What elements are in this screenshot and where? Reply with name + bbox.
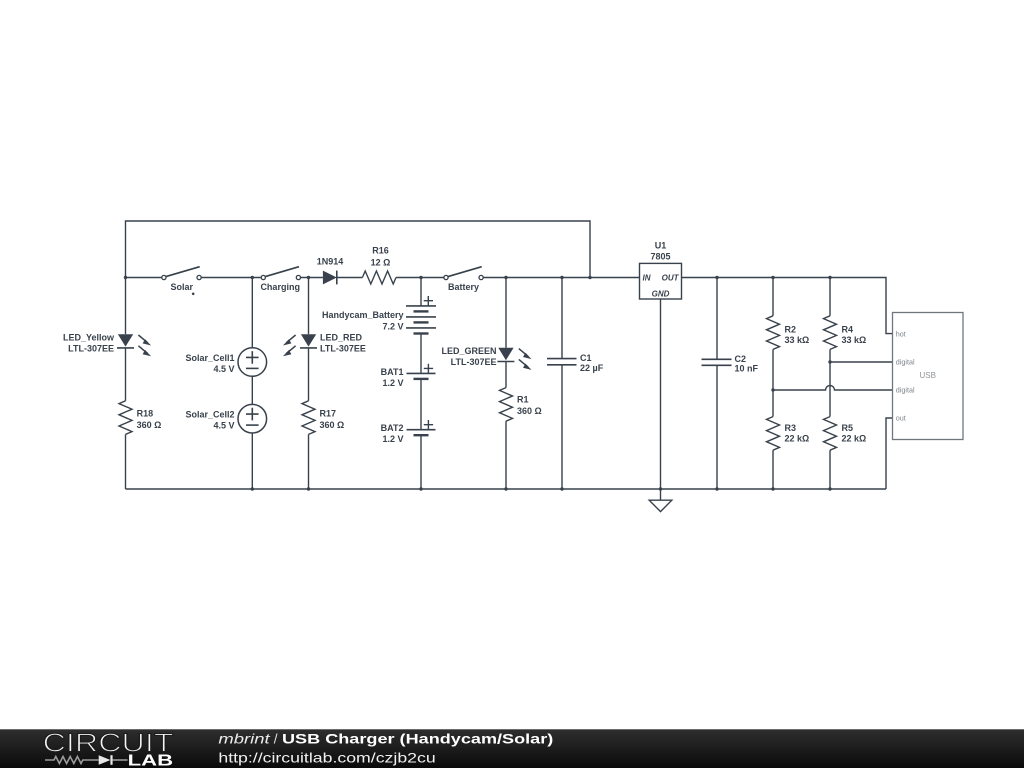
svg-text:7805: 7805	[650, 251, 670, 261]
svg-text:R4: R4	[842, 325, 854, 335]
switch Battery	[444, 267, 483, 280]
battery BAT1	[407, 364, 436, 379]
resistor R5	[824, 417, 837, 451]
svg-text:1.2 V: 1.2 V	[382, 378, 403, 388]
svg-text:USB: USB	[919, 371, 935, 380]
wire main bus Charging switch to diode D1	[301, 277, 323, 279]
wire main bus Battery switch to U1 IN	[483, 277, 639, 279]
svg-text:digital: digital	[896, 357, 915, 366]
wire R2 column top	[772, 278, 774, 316]
wire main bus Solar switch to Charging switch	[201, 277, 261, 279]
junction node C2 column / main bus	[715, 276, 718, 279]
resistor R1	[500, 388, 513, 422]
voltage source Solar_Cell2	[238, 404, 267, 433]
wire left rail LED to R18	[125, 348, 127, 401]
svg-text:R17: R17	[320, 409, 337, 419]
svg-text:BAT1: BAT1	[381, 367, 404, 377]
svg-text:LAB: LAB	[128, 753, 173, 768]
capacitor C1	[547, 359, 577, 365]
svg-text:out: out	[896, 414, 906, 423]
wire R17 to bottom bus	[308, 434, 310, 489]
svg-text:R3: R3	[785, 423, 797, 433]
LED LED_Yellow	[117, 334, 151, 356]
ground	[649, 489, 672, 512]
svg-text:digital: digital	[896, 386, 915, 395]
resistor R17	[302, 401, 315, 435]
wire R2 to R3	[772, 349, 774, 416]
junction node R4/R5 digital1	[828, 360, 831, 363]
wire top loop from left rail to U1 input column	[126, 221, 591, 278]
svg-text:BAT2: BAT2	[381, 423, 404, 433]
battery Handycam_Battery	[406, 296, 436, 334]
wire left rail upper	[125, 278, 127, 335]
svg-text:Solar_Cell1: Solar_Cell1	[185, 353, 234, 363]
junction node LED_GREEN column / main bus	[504, 276, 507, 279]
svg-text:LTL-307EE: LTL-307EE	[320, 344, 366, 354]
junction node C1 column / main bus	[560, 276, 563, 279]
svg-text:7.2 V: 7.2 V	[382, 321, 403, 331]
svg-text:U1: U1	[655, 240, 667, 250]
wire between solar cells	[251, 376, 253, 404]
connector USB box	[893, 313, 964, 440]
wire LED_RED to R17	[308, 348, 310, 401]
resistor R4	[824, 316, 837, 350]
junction node LED_RED column / main bus	[307, 276, 310, 279]
wire LED_GREEN to R1	[505, 362, 507, 388]
wire battery column top	[420, 278, 422, 307]
junction node C2 column / bottom bus	[715, 487, 718, 490]
junction node BAT2 column / bottom bus	[419, 487, 422, 490]
switch Charging	[261, 267, 300, 280]
resistor R18	[119, 401, 132, 435]
svg-text:360 Ω: 360 Ω	[137, 420, 162, 430]
svg-text:USB Charger (Handycam/Solar): USB Charger (Handycam/Solar)	[282, 732, 553, 747]
junction node R4 column / main bus	[828, 276, 831, 279]
CircuitLab logo resistor-diode glyph	[45, 757, 128, 764]
junction node left rail / main bus	[124, 276, 127, 279]
svg-text:/: /	[274, 732, 278, 747]
svg-text:22 kΩ: 22 kΩ	[785, 433, 810, 443]
svg-text:R18: R18	[137, 409, 154, 419]
resistor R3	[767, 417, 780, 451]
resistor R16	[362, 271, 396, 284]
svg-text:4.5 V: 4.5 V	[213, 364, 234, 374]
svg-text:hot: hot	[896, 329, 906, 338]
LED LED_GREEN	[497, 348, 531, 370]
voltage source Solar_Cell1	[238, 348, 267, 377]
diode D1 1N914	[323, 271, 337, 285]
wire LED_GREEN column top	[505, 278, 507, 348]
resistor R2	[767, 316, 780, 350]
capacitor C2	[702, 359, 732, 365]
wire R4 column top	[829, 278, 831, 316]
wire solar-cell column bottom	[251, 433, 253, 489]
wire left rail R18 to bottom bus	[125, 434, 127, 489]
wire bottom ground bus	[126, 488, 887, 490]
svg-text:360 Ω: 360 Ω	[517, 406, 542, 416]
junction node solar cell column / bottom bus	[251, 487, 254, 490]
svg-text:Charging: Charging	[260, 282, 300, 292]
svg-text:mbrint: mbrint	[218, 732, 271, 747]
wire R4 to R5	[829, 349, 831, 416]
wire C2 column top	[716, 278, 718, 360]
svg-text:GND: GND	[652, 290, 670, 299]
svg-text:1N914: 1N914	[317, 256, 344, 266]
wire R16 to Battery switch	[396, 277, 444, 279]
svg-text:C2: C2	[735, 354, 747, 364]
svg-text:22 µF: 22 µF	[580, 363, 604, 373]
wire solar-cell column top	[251, 278, 253, 348]
wire LED_RED column top	[308, 278, 310, 335]
wire C1 to bottom bus	[561, 365, 563, 489]
wire R5 to bottom bus	[829, 450, 831, 489]
svg-text:R2: R2	[785, 325, 797, 335]
junction node battery column / main bus	[419, 276, 422, 279]
svg-text:4.5 V: 4.5 V	[213, 421, 234, 431]
svg-text:C1: C1	[580, 353, 592, 363]
wire C2 to bottom bus	[716, 365, 718, 489]
svg-text:R5: R5	[842, 423, 854, 433]
op-amp U1 7805 regulator box	[640, 263, 682, 299]
LED LED_RED	[283, 334, 317, 356]
svg-text:1.2 V: 1.2 V	[382, 434, 403, 444]
junction node R5 column / bottom bus	[828, 487, 831, 490]
svg-text:10 nF: 10 nF	[735, 364, 759, 374]
junction node C1 column / bottom bus	[560, 487, 563, 490]
svg-text:12 Ω: 12 Ω	[371, 258, 391, 268]
junction node top loop / main bus	[588, 276, 591, 279]
svg-text:IN: IN	[643, 274, 651, 283]
svg-text:360 Ω: 360 Ω	[320, 420, 345, 430]
svg-text:LED_GREEN: LED_GREEN	[441, 346, 496, 356]
wire R1 to bottom bus	[505, 421, 507, 489]
battery BAT2	[407, 420, 436, 435]
svg-text:R1: R1	[517, 395, 529, 405]
svg-text:Solar_Cell2: Solar_Cell2	[185, 410, 234, 420]
svg-text:OUT: OUT	[662, 274, 680, 283]
wire digital1 from R4/R5 node to USB	[830, 361, 893, 363]
wire USB out pin to bottom bus	[886, 418, 893, 489]
svg-text:33 kΩ: 33 kΩ	[785, 335, 810, 345]
wire U1 GND to bottom bus	[660, 299, 662, 489]
wire C1 column top	[561, 278, 563, 359]
wire diode to R16	[337, 277, 363, 279]
svg-text:33 kΩ: 33 kΩ	[842, 335, 867, 345]
switch Solar	[162, 267, 201, 280]
wire main bus U1 OUT to USB column	[682, 278, 893, 334]
junction node ground column / bottom bus	[659, 487, 662, 490]
svg-text:R16: R16	[372, 246, 389, 256]
svg-text:Battery: Battery	[448, 282, 479, 292]
svg-text:LED_Yellow: LED_Yellow	[63, 333, 115, 343]
svg-text:http://circuitlab.com/czjb2cu: http://circuitlab.com/czjb2cu	[218, 750, 435, 765]
svg-text:LTL-307EE: LTL-307EE	[451, 357, 497, 367]
junction node R3 column / bottom bus	[771, 487, 774, 490]
wire battery to BAT1	[420, 334, 422, 374]
svg-text:Solar: Solar	[170, 282, 193, 292]
junction node R2 column / main bus	[771, 276, 774, 279]
junction node R1 column / bottom bus	[504, 487, 507, 490]
junction node R17 column / bottom bus	[307, 487, 310, 490]
svg-text:LTL-307EE: LTL-307EE	[68, 344, 114, 354]
junction node R2/R3 digital2	[771, 388, 774, 391]
wire main bus segment left rail to Solar switch	[126, 277, 162, 279]
junction node solar cell column / main bus	[251, 276, 254, 279]
footer bar	[0, 729, 1024, 768]
svg-text:22 kΩ: 22 kΩ	[842, 433, 867, 443]
wire digital2 from R2/R3 node to USB with hop	[773, 386, 893, 391]
node state dot under Solar switch	[192, 293, 195, 296]
svg-text:LED_RED: LED_RED	[320, 333, 363, 343]
wire BAT2 to bottom bus	[420, 435, 422, 489]
wire R3 to bottom bus	[772, 450, 774, 489]
wire BAT1 to BAT2	[420, 379, 422, 430]
svg-text:Handycam_Battery: Handycam_Battery	[322, 310, 404, 320]
